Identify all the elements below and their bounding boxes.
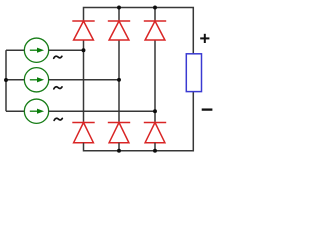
wire stub to source 3 left bbox=[6, 110, 24, 112]
wire stub diode D3 top bbox=[154, 8, 156, 22]
ac source V1 bbox=[24, 38, 48, 62]
node top rail D3 bbox=[153, 6, 157, 10]
wire phase 3 horizontal bbox=[49, 110, 155, 112]
wire stub diode D5 bottom bbox=[118, 143, 120, 151]
wire phase 1 vertical bbox=[83, 40, 85, 123]
label plus bbox=[200, 34, 209, 43]
wire stub to source 2 left bbox=[6, 79, 24, 81]
wire positive top rail bbox=[84, 8, 194, 54]
wire stub to source 1 left bbox=[6, 49, 24, 51]
label tilde V3 bbox=[54, 118, 62, 120]
diode D5 bbox=[108, 123, 130, 143]
load resistor R bbox=[186, 54, 201, 92]
wire phase 1 horizontal bbox=[49, 49, 84, 51]
node neutral junction bbox=[4, 78, 8, 82]
node bottom rail D6 bbox=[153, 149, 157, 153]
diode D1 bbox=[72, 21, 94, 40]
diode D6 bbox=[144, 123, 166, 143]
diode D3 bbox=[144, 21, 166, 40]
wire negative bottom rail bbox=[84, 92, 194, 151]
node bottom rail D5 bbox=[117, 149, 121, 153]
node phase 3 junction bbox=[153, 109, 157, 113]
wire stub diode D6 bottom bbox=[154, 143, 156, 151]
wire phase 2 vertical bbox=[118, 40, 120, 123]
wire phase 3 vertical bbox=[154, 40, 156, 123]
label tilde V1 bbox=[54, 56, 62, 58]
label minus bbox=[202, 108, 213, 110]
ac source V2 bbox=[24, 68, 48, 92]
label tilde V2 bbox=[54, 87, 62, 89]
diode D2 bbox=[108, 21, 130, 40]
node phase 1 junction bbox=[82, 48, 86, 52]
wire left neutral rail bbox=[5, 50, 7, 111]
ac source V3 bbox=[24, 99, 48, 123]
wire phase 2 horizontal bbox=[49, 79, 119, 81]
node phase 2 junction bbox=[117, 78, 121, 82]
node top rail D2 bbox=[117, 6, 121, 10]
diode D4 bbox=[72, 123, 94, 143]
wire stub diode D2 top bbox=[118, 8, 120, 22]
